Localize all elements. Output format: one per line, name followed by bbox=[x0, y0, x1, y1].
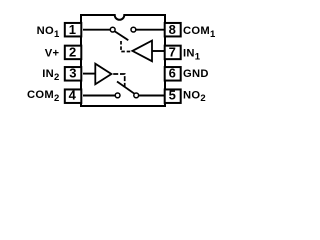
svg-text:7: 7 bbox=[169, 45, 176, 60]
svg-text:4: 4 bbox=[69, 88, 77, 103]
svg-text:1: 1 bbox=[69, 22, 76, 37]
svg-text:2: 2 bbox=[69, 45, 76, 60]
svg-text:GND: GND bbox=[183, 68, 209, 80]
svg-text:8: 8 bbox=[169, 22, 176, 37]
svg-text:6: 6 bbox=[169, 66, 176, 81]
svg-text:V+: V+ bbox=[45, 48, 60, 60]
svg-text:5: 5 bbox=[169, 88, 176, 103]
svg-text:3: 3 bbox=[69, 66, 76, 81]
